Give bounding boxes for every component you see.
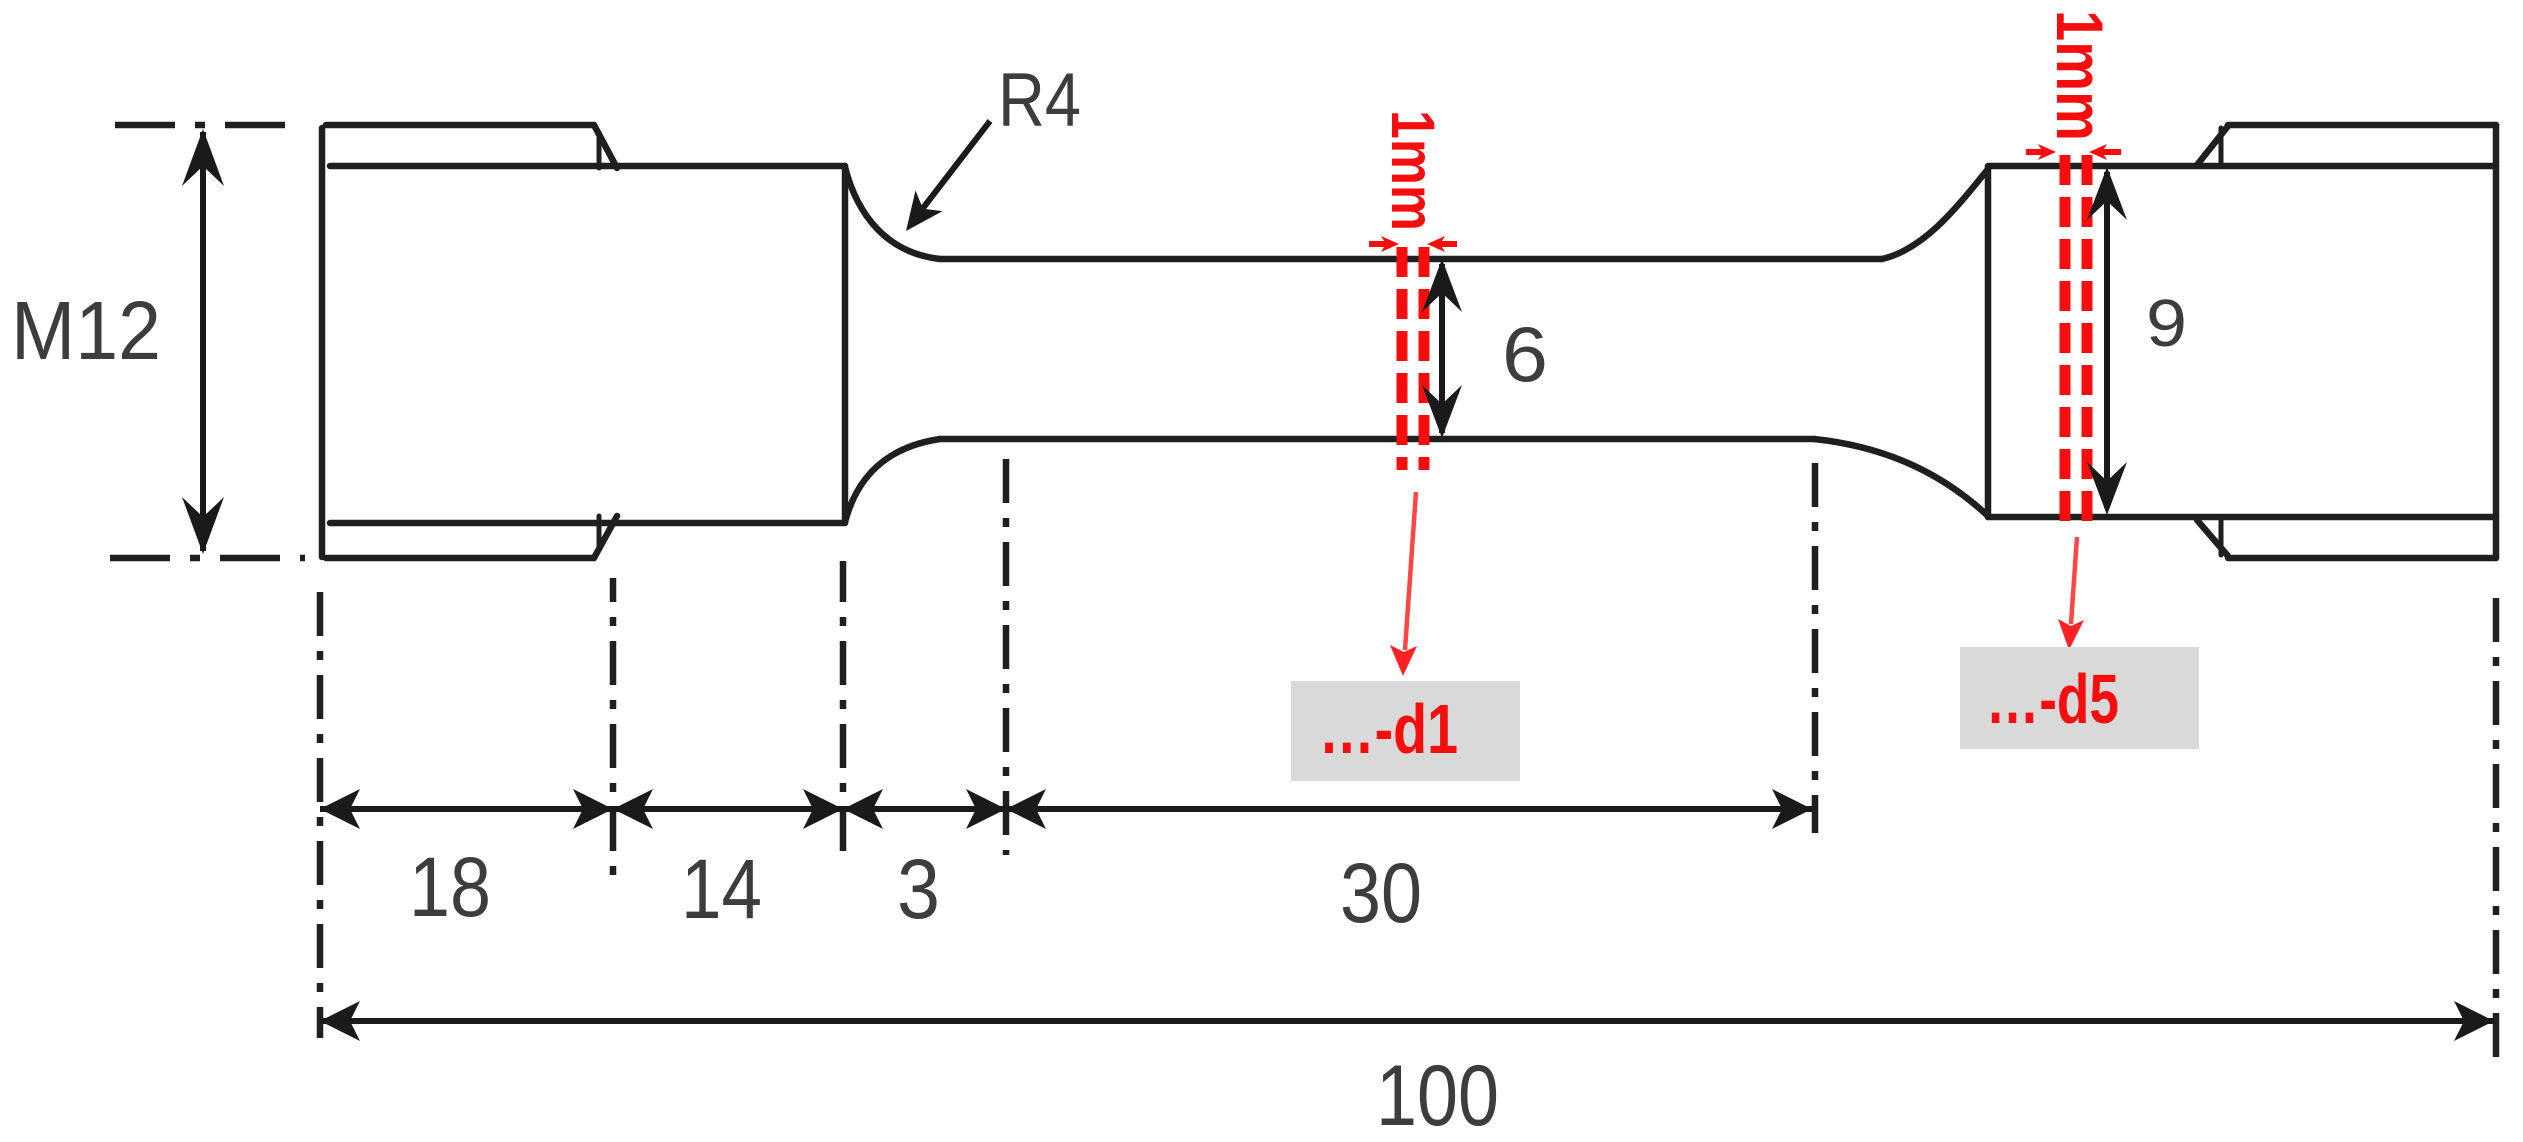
right shoulder bottom line <box>1988 514 2496 521</box>
M12 arrowhead up <box>182 129 224 186</box>
left thread bottom runout tick <box>597 516 602 550</box>
extension centerline C x=843 <box>840 561 847 866</box>
9 dimension arrow line <box>2104 172 2110 508</box>
d5 gray box <box>1960 647 2199 749</box>
svg-text:6: 6 <box>1502 310 1548 398</box>
svg-text:R4: R4 <box>998 58 1081 143</box>
d5 leader line <box>2071 537 2077 624</box>
right bottom fillet <box>1814 439 1988 516</box>
6 arrowhead down <box>1422 385 1462 438</box>
6 dimension arrow line <box>1439 264 1445 433</box>
d1 leader arrowhead <box>1390 645 1417 676</box>
right thread bottom runout tick <box>2219 520 2224 555</box>
gauge bottom line <box>940 436 1814 443</box>
9 arrowhead up <box>2087 167 2127 220</box>
left thread top runout tick <box>597 133 602 168</box>
M12 top centerline dash-dot <box>115 122 305 129</box>
left thread bottom chamfer <box>594 516 617 558</box>
9 arrowhead down <box>2087 462 2127 515</box>
svg-text:…-d1: …-d1 <box>1319 690 1458 768</box>
right thread outer bottom line <box>2228 555 2496 562</box>
left thread root top line <box>330 163 845 170</box>
6 arrowhead up <box>1422 259 1462 312</box>
arrowheads at D <box>966 789 1006 829</box>
extension centerline E x=1815 <box>1812 463 1819 833</box>
d1 dashed line right <box>1419 247 1430 470</box>
extension centerline D x=1006 <box>1003 459 1010 855</box>
gauge top line <box>940 256 1882 263</box>
d5 leader arrowhead <box>2058 619 2084 650</box>
M12 bottom centerline dash-dot <box>110 555 305 562</box>
d1 tick right <box>1436 241 1457 247</box>
left bottom fillet <box>845 439 940 522</box>
extension centerline A x=320 <box>317 592 324 1038</box>
arrowheads at C <box>803 789 843 829</box>
d1 tick left <box>1369 241 1390 247</box>
arrowhead at E pointing right <box>1772 789 1812 829</box>
left shoulder vertical <box>842 166 849 523</box>
dimension line row 2 (100) <box>320 1018 2494 1024</box>
R4 leader arrowhead <box>892 190 942 241</box>
R4 leader line <box>920 121 990 212</box>
d1 leader line <box>1405 492 1416 650</box>
left thread top chamfer <box>594 125 617 168</box>
arrowheads at B <box>573 789 613 829</box>
left thread root bottom line <box>330 520 845 527</box>
arrowhead 100 right <box>2454 1001 2494 1041</box>
right thread outer top line <box>2228 122 2496 129</box>
right shoulder top line <box>1988 163 2496 170</box>
svg-text:M12: M12 <box>11 284 161 377</box>
right thread bottom chamfer <box>2197 520 2228 556</box>
left top fillet R4 <box>845 167 940 259</box>
left end vertical edge <box>319 128 326 557</box>
arrowhead 100 left <box>320 1001 360 1041</box>
svg-text:14: 14 <box>681 842 762 936</box>
extension centerline F x=2496 <box>2493 598 2500 1070</box>
right top fillet <box>1882 169 1988 259</box>
svg-text:1mm: 1mm <box>1379 110 1447 231</box>
svg-text:100: 100 <box>1376 1048 1499 1142</box>
d5 dashed line left <box>2060 155 2071 533</box>
d5 tick left <box>2026 149 2047 155</box>
d5 tick right <box>2098 149 2121 155</box>
svg-text:9: 9 <box>2146 286 2187 361</box>
M12 arrowhead down <box>182 497 224 554</box>
right thread top chamfer <box>2197 126 2228 165</box>
right thread top runout tick <box>2219 128 2224 165</box>
svg-text:30: 30 <box>1340 846 1422 940</box>
d1 dashed line left <box>1397 247 1408 470</box>
d1 gray box <box>1291 681 1520 781</box>
extension centerline B x=613 <box>610 578 617 878</box>
left thread outer bottom line <box>326 555 594 562</box>
svg-text:1mm: 1mm <box>2043 10 2117 141</box>
M12 dimension arrow line <box>200 132 206 551</box>
right shoulder vertical <box>1985 167 1992 517</box>
dimension line row 1 <box>320 806 1812 812</box>
svg-text:3: 3 <box>897 842 940 936</box>
d5 dashed line right <box>2082 155 2093 533</box>
arrowhead at A pointing left <box>320 789 360 829</box>
svg-text:…-d5: …-d5 <box>1986 660 2119 738</box>
left thread outer top line <box>326 122 594 129</box>
right end vertical edge <box>2493 125 2500 558</box>
svg-text:18: 18 <box>409 840 491 934</box>
red marker d1 group <box>1291 110 1520 781</box>
red marker d5 group <box>1960 10 2199 749</box>
